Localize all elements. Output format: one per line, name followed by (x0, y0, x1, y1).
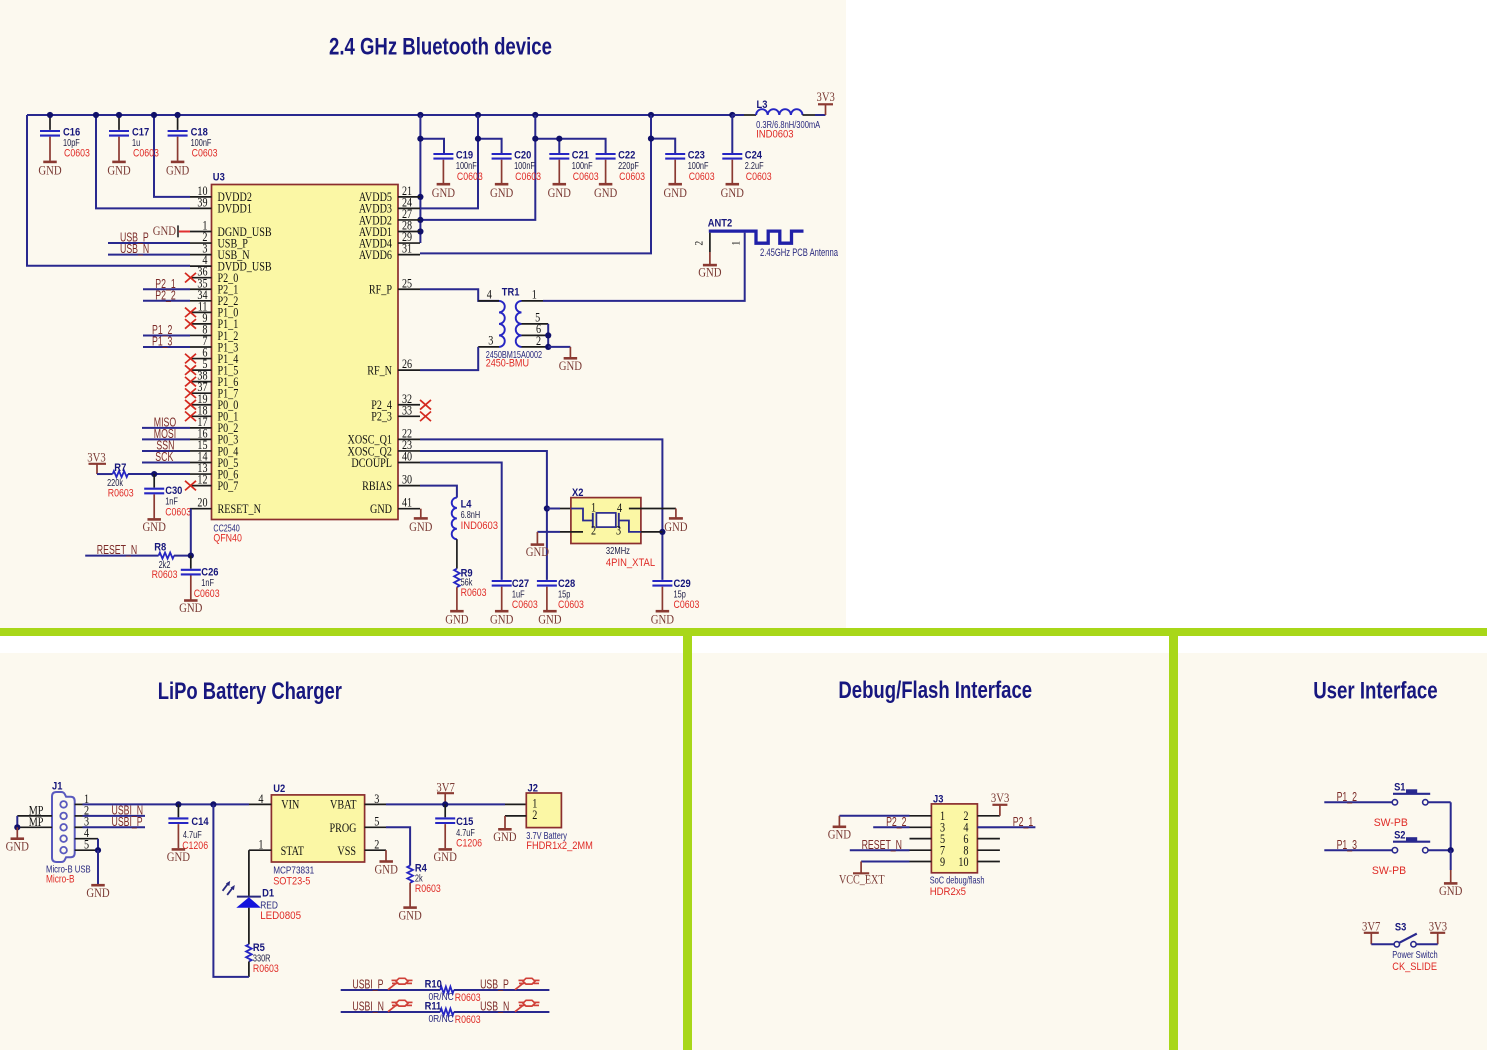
svg-text:C0603: C0603 (192, 148, 218, 160)
svg-text:R8: R8 (154, 541, 166, 553)
net label P2_2 and wire (143, 300, 190, 302)
ANT2 pin 2 to ground (709, 233, 711, 252)
svg-text:R0603: R0603 (461, 587, 487, 599)
U3 left pin 35 P2_1 (190, 288, 212, 290)
diff pair mark USB_P (515, 983, 524, 990)
ground below C26 (184, 599, 198, 602)
capacitor C28 15p (537, 580, 557, 582)
net label P1_3 and wire to S2 (1324, 849, 1392, 851)
svg-text:GND: GND (721, 185, 744, 200)
U2 pin 2 VSS (365, 849, 386, 851)
svg-text:GND: GND (86, 885, 109, 900)
svg-text:2.45GHz PCB Antenna: 2.45GHz PCB Antenna (760, 247, 839, 259)
junction dots on AVDD rails (417, 136, 423, 142)
svg-text:P1_2: P1_2 (1337, 790, 1357, 804)
svg-text:4.7uF: 4.7uF (183, 829, 202, 841)
svg-text:R0603: R0603 (253, 963, 279, 975)
svg-text:GND: GND (664, 519, 687, 534)
wire: AVDD vertical C to pin 27 row (420, 115, 535, 220)
IC U3 CC2540 body (212, 185, 399, 520)
svg-text:IND0603: IND0603 (461, 520, 499, 532)
svg-text:3V3: 3V3 (1429, 919, 1447, 934)
wire XOSC_Q1 pin 22 to X2 pin3 / C29 (420, 439, 662, 580)
svg-text:SCK: SCK (155, 450, 173, 464)
J1 pin 5 line (75, 849, 98, 851)
svg-text:25: 25 (402, 275, 412, 290)
net label MISO and wire (142, 427, 190, 429)
capacitor C30 1nF (153, 474, 155, 488)
net label USBI_N and wire (83, 815, 146, 817)
U2 pin 4 VIN (249, 803, 271, 805)
U3 left pin 8 P1_2 (190, 334, 212, 336)
svg-text:40: 40 (402, 449, 412, 464)
net label P2_2 and wire to J3 pin3 (873, 826, 909, 828)
resistor R9 56k (454, 569, 460, 588)
svg-text:C14: C14 (191, 816, 209, 828)
ground below C15 (438, 848, 452, 851)
capacitor C24 (731, 115, 733, 153)
net label P1_2 and wire to S1 (1324, 801, 1392, 803)
inductor L3 (732, 114, 744, 116)
svg-text:SW-PB: SW-PB (1374, 817, 1408, 829)
U3 right pin 25 RF_P (398, 288, 420, 290)
svg-text:USB_P: USB_P (480, 978, 509, 992)
net label USBI_P and wire (83, 826, 146, 828)
svg-text:DCOUPL: DCOUPL (351, 455, 392, 470)
svg-text:VBAT: VBAT (330, 797, 357, 812)
wire USBI_P to USB_P via R10 (341, 989, 441, 991)
no-connect marks on unused U3 pins (185, 273, 196, 283)
svg-text:10: 10 (958, 854, 968, 869)
wire R5 return to VBUS rail (248, 962, 250, 977)
svg-text:C0603: C0603 (512, 599, 538, 611)
svg-text:P1_3: P1_3 (152, 335, 172, 349)
svg-text:GND: GND (166, 163, 189, 178)
wire X2 pin 1 (547, 508, 560, 510)
ground below C14 (172, 848, 186, 851)
U3 left pin 2 USB_P (190, 242, 212, 244)
svg-text:3: 3 (488, 332, 493, 347)
U3 left pin 10 DVDD2 (190, 196, 212, 198)
wire D1 to R5 (248, 908, 250, 945)
J1 pin 2 line (75, 815, 83, 817)
U2 pin 1 STAT (249, 849, 271, 851)
U3 left pin 9 P1_1 (190, 323, 212, 325)
U3 left pin 18 P0_1 (190, 415, 212, 417)
svg-text:20: 20 (197, 495, 207, 510)
capacitor C16 (49, 115, 51, 130)
svg-text:4: 4 (258, 791, 263, 806)
J3 right pin 8 (977, 849, 1000, 851)
svg-text:LiPo Battery Charger: LiPo Battery Charger (158, 678, 342, 705)
wire J3 pin9 to VCC_EXT (861, 861, 909, 863)
svg-text:2: 2 (694, 241, 706, 246)
inductor L4 6.8nH (452, 498, 457, 540)
svg-text:4PIN_XTAL: 4PIN_XTAL (606, 557, 655, 569)
svg-text:GND: GND (493, 829, 516, 844)
svg-text:C0603: C0603 (746, 171, 772, 183)
svg-text:3: 3 (616, 523, 621, 538)
U3 right pin 29 AVDD4 (398, 242, 420, 244)
net label RESET_N and wire (85, 555, 158, 557)
svg-text:9: 9 (940, 854, 945, 869)
divider bar horizontal (0, 628, 1487, 636)
svg-text:26: 26 (402, 356, 412, 371)
svg-text:C0603: C0603 (64, 148, 90, 160)
svg-text:1: 1 (532, 286, 537, 301)
svg-text:2: 2 (532, 807, 537, 822)
svg-text:USBI_P: USBI_P (352, 978, 383, 992)
svg-text:3: 3 (374, 791, 379, 806)
svg-text:39: 39 (197, 194, 207, 209)
svg-text:P2_1: P2_1 (1013, 815, 1033, 829)
junction dots on top bus (47, 112, 53, 118)
svg-text:GND: GND (548, 185, 571, 200)
J3 left pin 5 (910, 838, 932, 840)
svg-text:C0603: C0603 (674, 599, 700, 611)
ground below C20 (495, 183, 509, 186)
svg-text:RESET_N: RESET_N (97, 543, 137, 557)
svg-text:4: 4 (617, 500, 622, 515)
wire VBAT to J2 (386, 803, 505, 805)
svg-text:Power Switch: Power Switch (1392, 949, 1438, 961)
capacitor C19 (433, 153, 453, 155)
diff pair mark USB_N (515, 1005, 524, 1012)
svg-text:30: 30 (402, 472, 412, 487)
U3 left pin 16 P0_3 (190, 438, 212, 440)
svg-text:GND: GND (409, 519, 432, 534)
X2 pin 3 line (641, 531, 663, 533)
svg-text:1: 1 (591, 500, 596, 515)
wire VBUS J1 pin1 to U2 VIN (83, 803, 250, 805)
svg-text:User Interface: User Interface (1313, 677, 1437, 704)
svg-text:MP: MP (29, 814, 44, 829)
svg-text:GND: GND (1439, 883, 1462, 898)
U3 right pin 30 RBIAS (398, 485, 420, 487)
svg-text:U3: U3 (213, 172, 225, 184)
svg-text:S3: S3 (1395, 922, 1406, 934)
U3 left pin 19 P0_0 (190, 404, 212, 406)
svg-text:USBI_N: USBI_N (352, 1000, 384, 1014)
capacitor C27 1uF (492, 580, 512, 582)
J3 left pin 9 (910, 861, 932, 863)
net label P2_1 and wire (143, 288, 190, 290)
ground below R4 (403, 906, 417, 909)
svg-text:SoC debug/flash: SoC debug/flash (930, 875, 985, 887)
wire S1 to ground branch (1428, 801, 1451, 803)
wire: left vertical to DVDD_USB pin 4 (27, 115, 190, 266)
ground below C16 (43, 161, 57, 164)
net label P1_3 and wire (143, 346, 190, 348)
U3 right pin 31 AVDD6 (398, 254, 420, 256)
wire RF_N pin 26 to TR1 pin 3 (420, 347, 478, 370)
net label MOSI and wire (142, 438, 190, 440)
svg-text:GND: GND (664, 185, 687, 200)
svg-text:RBIAS: RBIAS (362, 478, 392, 493)
svg-text:P2_3: P2_3 (371, 409, 392, 424)
svg-text:C1206: C1206 (456, 837, 482, 849)
svg-text:J2: J2 (528, 783, 538, 795)
ground at U3 pin 41 (420, 509, 422, 518)
IC U2 MCP73831 body (271, 795, 364, 862)
sheet: debug flash interface (692, 653, 1170, 1050)
wire S2 to ground branch (1428, 849, 1451, 851)
U3 right pin 22 XOSC_Q1 (398, 438, 420, 440)
svg-text:2.4 GHz Bluetooth device: 2.4 GHz Bluetooth device (329, 34, 552, 61)
capacitor C20 (492, 153, 512, 155)
wire STAT to LED D1 (248, 849, 250, 851)
svg-text:RF_P: RF_P (369, 282, 392, 297)
svg-text:GND: GND (828, 827, 851, 842)
svg-text:C0603: C0603 (194, 588, 220, 600)
sheet: user interface (1178, 653, 1487, 1050)
wire: stub to C20 (478, 139, 502, 153)
divider bar vertical 2 (1169, 636, 1178, 1050)
svg-text:VIN: VIN (281, 797, 299, 812)
X2 pin 2 line and ground (560, 531, 583, 533)
capacitor C26 1nF (190, 556, 192, 569)
resistor R7 220k (97, 473, 113, 475)
svg-text:GND: GND (432, 185, 455, 200)
svg-text:GND: GND (143, 519, 166, 534)
resistor R5 330R (246, 944, 252, 961)
J3 left pin 1 (910, 815, 932, 817)
svg-text:FHDR1x2_2MM: FHDR1x2_2MM (526, 840, 593, 852)
J2 pin 2 line to ground (505, 815, 526, 817)
svg-text:R0603: R0603 (455, 992, 481, 1004)
svg-text:R7: R7 (114, 462, 126, 474)
svg-text:R0603: R0603 (108, 488, 134, 500)
svg-text:SOT23-5: SOT23-5 (273, 875, 310, 887)
svg-text:GND: GND (434, 849, 457, 864)
net label P2_1 and wire to J3 pin4 (977, 826, 1035, 828)
U3 right pin 33 P2_3 (398, 415, 420, 417)
svg-text:P0_7: P0_7 (218, 478, 239, 493)
J3 left pin 7 (910, 849, 932, 851)
svg-text:12: 12 (197, 472, 207, 487)
J3 right pin 6 (977, 838, 1000, 840)
U3 left pin 17 P0_2 (190, 427, 212, 429)
svg-text:GND: GND (6, 839, 29, 854)
svg-text:S1: S1 (1394, 781, 1405, 793)
diff pair mark USBI_P (388, 983, 397, 990)
svg-text:3V3: 3V3 (991, 790, 1009, 805)
svg-text:DVDD1: DVDD1 (218, 201, 252, 216)
U3 left pin 15 P0_4 (190, 450, 212, 452)
svg-text:C0603: C0603 (619, 171, 645, 183)
wire: vertical to DVDD1 pin 39 (96, 115, 190, 208)
svg-text:GND: GND (538, 612, 561, 627)
J3 right pin 4 (977, 826, 1000, 828)
wire: main 2V5/AVDD top bus (27, 114, 732, 116)
svg-text:3V7: 3V7 (1362, 919, 1381, 934)
svg-text:31: 31 (402, 241, 412, 256)
U3 right pin 26 RF_N (398, 369, 420, 371)
svg-text:C0603: C0603 (573, 171, 599, 183)
U3 left pin 13 P0_6 (190, 473, 212, 475)
svg-text:GND: GND (445, 612, 468, 627)
U3 left pin 14 P0_5 (190, 462, 212, 464)
svg-text:RESET_N: RESET_N (218, 501, 262, 516)
ground below C23 (668, 183, 682, 186)
svg-text:L3: L3 (757, 99, 768, 111)
net label SCK and wire (142, 462, 190, 464)
svg-text:TR1: TR1 (502, 286, 520, 298)
wire RBIAS pin 30 to L4/R9 (420, 486, 457, 498)
svg-text:R10: R10 (425, 978, 442, 990)
svg-text:C0603: C0603 (457, 171, 483, 183)
wire: stub to C19 (420, 139, 444, 153)
U3 right pin 23 XOSC_Q2 (398, 450, 420, 452)
svg-text:GND: GND (651, 612, 674, 627)
capacitor C23 (665, 153, 685, 155)
svg-text:1: 1 (731, 241, 743, 246)
ground below C22 (599, 183, 613, 186)
svg-text:SW-PB: SW-PB (1372, 865, 1406, 877)
svg-text:4: 4 (487, 286, 492, 301)
ground below C28 (543, 610, 557, 613)
svg-text:USB_N: USB_N (480, 1000, 509, 1014)
net label SSN and wire (142, 450, 190, 452)
U3 right pin 24 AVDD3 (398, 207, 420, 209)
svg-text:R0603: R0603 (152, 569, 178, 581)
svg-text:GND: GND (179, 600, 202, 615)
U3 left pin 11 P1_0 (190, 311, 212, 313)
ground below C29 (656, 610, 670, 613)
wire XOSC_Q2 pin 23 to X2 pin1 / C28 (420, 451, 547, 580)
connector J3 SoC debug header body (931, 804, 977, 873)
svg-text:41: 41 (402, 495, 412, 510)
svg-text:CK_SLIDE: CK_SLIDE (1392, 961, 1437, 973)
ground below C21 (553, 183, 567, 186)
capacitor C22 (596, 153, 616, 155)
svg-text:GND: GND (107, 163, 130, 178)
svg-text:ANT2: ANT2 (708, 218, 732, 230)
svg-text:GND: GND (490, 185, 513, 200)
junction dot at R7/C30 (151, 471, 157, 477)
svg-text:D1: D1 (262, 888, 274, 900)
svg-text:R11: R11 (425, 1000, 442, 1012)
svg-text:GND: GND (398, 907, 421, 922)
U3 right pin 40 DCOUPL (398, 462, 420, 464)
svg-text:3V3: 3V3 (817, 89, 835, 104)
U3 left pin 5 P1_5 (190, 369, 212, 371)
transformer TR1 balun (478, 300, 499, 302)
J1 pin 1 line (75, 803, 83, 805)
capacitor C21 (549, 153, 569, 155)
U3 right pin 41 GND (398, 508, 420, 510)
diff pair mark USBI_N (388, 1005, 397, 1012)
svg-text:1: 1 (258, 837, 263, 852)
svg-text:IND0603: IND0603 (756, 129, 794, 141)
J3 right pin 2 (977, 815, 1000, 817)
svg-text:USB_N: USB_N (120, 242, 149, 256)
svg-text:GND: GND (375, 861, 398, 876)
TR1 pin 1 wire to antenna (522, 300, 544, 302)
svg-text:GND: GND (526, 544, 549, 559)
svg-text:GND: GND (153, 223, 176, 238)
wire RESET_N to pin 20 (190, 509, 192, 556)
svg-text:GND: GND (559, 358, 582, 373)
ground at TR1 secondary (548, 346, 570, 348)
ground below C24 (726, 183, 740, 186)
svg-text:GND: GND (38, 163, 61, 178)
ground at J1 pin 5 (91, 884, 105, 887)
wire J3 pin2 to 3V3 (999, 805, 1001, 816)
S3 contacts and lever (1371, 943, 1394, 945)
U3 left pin 6 P1_4 (190, 358, 212, 360)
svg-text:U2: U2 (273, 783, 285, 795)
LED D1 RED (237, 896, 261, 898)
ground below C18 (171, 161, 185, 164)
svg-text:QFN40: QFN40 (213, 533, 242, 545)
svg-text:C0603: C0603 (133, 148, 159, 160)
J1 MP mounting pins (17, 815, 52, 817)
U3 right pin 21 AVDD5 (398, 196, 420, 198)
svg-text:AVDD6: AVDD6 (359, 247, 392, 262)
wire MP pins to ground (16, 816, 18, 827)
svg-text:S2: S2 (1394, 829, 1405, 841)
capacitor C15 4.7uF (444, 804, 446, 817)
svg-text:GND: GND (167, 849, 190, 864)
wire: vertical to DVDD2 pin 10 (154, 115, 190, 197)
U3 left pin 37 P1_7 (190, 392, 212, 394)
svg-text:GND: GND (698, 265, 721, 280)
wire: AVDD vertical B to pin 24 (420, 115, 478, 208)
wire: AVDD vertical A (pins 21/27/28/29) (419, 115, 421, 243)
svg-text:GND: GND (490, 612, 513, 627)
wire: rail to C21 and C22 (535, 139, 605, 153)
U3 left pin 20 RESET_N (190, 508, 212, 510)
svg-text:33: 33 (402, 402, 412, 417)
U3 left pin 34 P2_2 (190, 300, 212, 302)
ground at J1 MP (11, 837, 24, 840)
svg-text:Debug/Flash Interface: Debug/Flash Interface (838, 677, 1032, 704)
ground below C30 (147, 518, 161, 521)
U3 left pin 3 USB_N (190, 254, 212, 256)
divider bar vertical 1 (683, 636, 692, 1050)
U3 right pin 28 AVDD1 (398, 231, 420, 233)
ground below C19 (437, 183, 451, 186)
net label USB_N and wire (108, 254, 190, 256)
U2 pin 5 PROG (365, 826, 386, 828)
svg-text:GND: GND (370, 501, 392, 516)
svg-text:3V3: 3V3 (87, 449, 105, 464)
svg-text:C0603: C0603 (515, 171, 541, 183)
wire S1/S2 common to ground (1450, 802, 1452, 850)
wire DCOUPL pin 40 to C27 (420, 463, 502, 580)
wire: C21 tap (558, 139, 560, 153)
U3 left pin 36 P2_0 (190, 277, 212, 279)
svg-text:5: 5 (374, 814, 379, 829)
svg-text:USBI_P: USBI_P (112, 815, 143, 829)
resistor R4 2k (407, 866, 413, 883)
U3 left pin 1 DGND_USB (190, 231, 212, 233)
U3 left pin 7 P1_3 (190, 346, 212, 348)
wire: stub to C23 (651, 139, 675, 153)
U3 left pin 38 P1_6 (190, 381, 212, 383)
wire: AVDD vertical D to pin 31 row (420, 115, 651, 253)
ground at U2 VSS (385, 850, 387, 861)
svg-text:R0603: R0603 (415, 883, 441, 895)
svg-text:R0603: R0603 (455, 1014, 481, 1026)
svg-text:PROG: PROG (330, 820, 357, 835)
net label USB_P and wire (108, 242, 190, 244)
svg-text:C0603: C0603 (165, 507, 191, 519)
wire RF_P pin 25 to TR1 pin 4 (420, 289, 499, 301)
J1 pin 3 line (75, 826, 83, 828)
svg-text:P2_2: P2_2 (155, 288, 175, 302)
